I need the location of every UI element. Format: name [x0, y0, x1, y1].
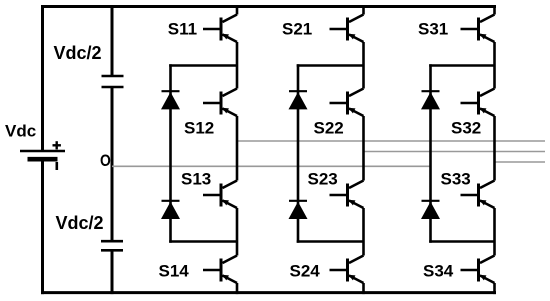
svg-text:S24: S24	[290, 262, 321, 281]
svg-text:Vdc/2: Vdc/2	[54, 43, 102, 63]
svg-text:S34: S34	[423, 262, 454, 281]
svg-text:S23: S23	[308, 170, 338, 189]
svg-text:S12: S12	[184, 119, 214, 138]
svg-text:S31: S31	[418, 20, 448, 39]
svg-text:O: O	[100, 152, 111, 170]
svg-text:S22: S22	[314, 119, 344, 138]
svg-text:S21: S21	[282, 20, 312, 39]
svg-text:Vdc: Vdc	[5, 122, 36, 141]
svg-text:S32: S32	[451, 119, 481, 138]
svg-text:S13: S13	[181, 170, 211, 189]
svg-text:Vdc/2: Vdc/2	[56, 213, 104, 233]
svg-text:S11: S11	[168, 20, 197, 39]
svg-text:S14: S14	[159, 262, 190, 281]
svg-text:S33: S33	[441, 170, 471, 189]
